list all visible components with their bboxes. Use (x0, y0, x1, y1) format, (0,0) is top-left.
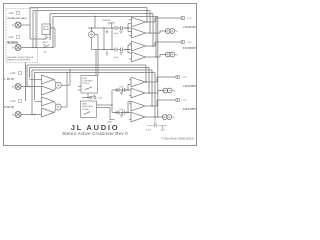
svg-text:+12V: +12V (8, 37, 14, 39)
svg-text:+12V: +12V (98, 97, 103, 99)
svg-text:R SU SUB OUT: R SU SUB OUT (183, 47, 196, 50)
svg-text:0.1uF: 0.1uF (146, 130, 152, 132)
svg-text:+12V: +12V (8, 13, 14, 15)
svg-text:+12V: +12V (43, 52, 48, 54)
svg-text:+12V: +12V (187, 18, 192, 20)
svg-text:L SU SUB OUT: L SU SUB OUT (183, 26, 196, 29)
svg-text:USE EITHER LOW FREQ LINE IN OR: USE EITHER LOW FREQ LINE IN OR (7, 57, 33, 59)
svg-text:LOW PASS: LOW PASS (83, 80, 94, 83)
svg-text:Stereo Active Crossover Rev 0: Stereo Active Crossover Rev 0 (62, 131, 128, 136)
svg-text:LOW FREQ LEVEL LINE IN: LOW FREQ LEVEL LINE IN (7, 18, 27, 20)
svg-text:© WenTech 09/01/2019: © WenTech 09/01/2019 (161, 136, 194, 140)
svg-text:L PA IN: L PA IN (5, 78, 14, 81)
svg-text:CHASSIS: CHASSIS (102, 19, 111, 22)
svg-text:RELAY: RELAY (43, 28, 50, 31)
svg-text:FILTER: FILTER (83, 83, 90, 85)
svg-text:FILTER: FILTER (82, 109, 89, 111)
svg-text:10uF: 10uF (114, 57, 119, 59)
svg-text:R HI OUTPUT: R HI OUTPUT (183, 108, 196, 111)
svg-text:+12V: +12V (10, 73, 16, 75)
svg-text:R PA IN: R PA IN (5, 106, 14, 109)
svg-text:+12V: +12V (182, 77, 187, 79)
svg-text:RECEIVER IN: RECEIVER IN (7, 43, 18, 45)
svg-text:+12V: +12V (187, 42, 192, 44)
svg-text:HIGH PASS: HIGH PASS (82, 105, 93, 108)
svg-text:+12V: +12V (10, 101, 16, 103)
svg-text:L HI OUTPUT: L HI OUTPUT (183, 85, 196, 88)
svg-text:+12V: +12V (182, 100, 187, 102)
svg-text:SEL: SEL (43, 44, 47, 46)
svg-text:MAIN: MAIN (82, 103, 88, 106)
svg-text:10uF: 10uF (119, 109, 124, 111)
svg-text:10uF: 10uF (119, 87, 124, 89)
svg-text:SPEAKER LEVEL RECEIVER IN: SPEAKER LEVEL RECEIVER IN (7, 59, 30, 62)
svg-text:10uF: 10uF (114, 33, 119, 35)
